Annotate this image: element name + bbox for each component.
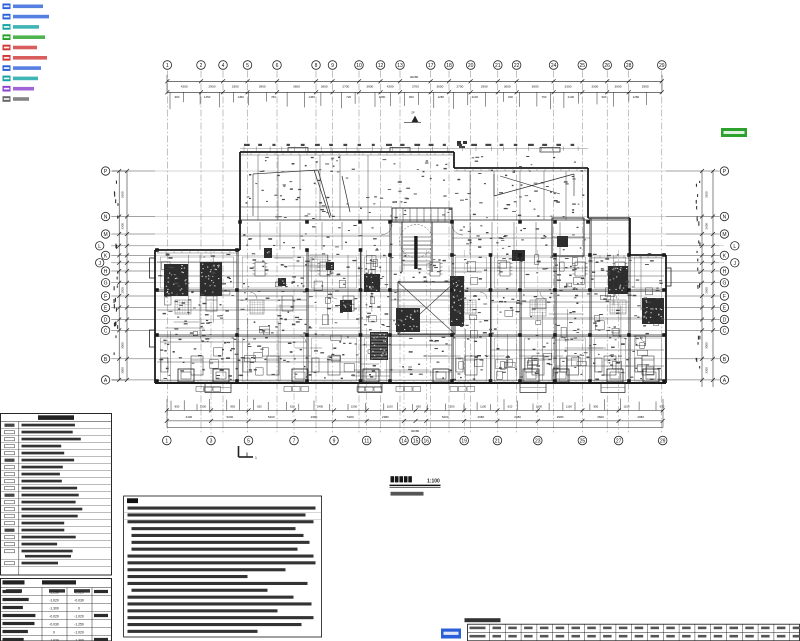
subtitle stripe	[391, 492, 424, 496]
svg-text:29: 29	[659, 63, 665, 69]
svg-text:N: N	[104, 215, 108, 221]
svg-text:1100: 1100	[623, 405, 629, 409]
svg-text:20: 20	[468, 63, 474, 69]
svg-text:2F: 2F	[411, 111, 415, 115]
svg-text:-0.020: -0.020	[49, 615, 59, 619]
svg-text:3600: 3600	[504, 84, 511, 88]
central stair core	[392, 208, 452, 222]
section mark	[238, 446, 240, 457]
svg-text:22: 22	[514, 63, 520, 69]
svg-text:850: 850	[594, 405, 599, 409]
room inset lines	[160, 257, 234, 288]
svg-text:-0.020: -0.020	[74, 591, 84, 595]
svg-text:3600: 3600	[615, 84, 622, 88]
svg-text:2980: 2980	[514, 415, 521, 419]
svg-text:3600: 3600	[597, 415, 604, 419]
svg-text:5200: 5200	[226, 415, 233, 419]
svg-text:5: 5	[247, 439, 250, 445]
svg-text:3000: 3000	[705, 342, 709, 349]
svg-text:0: 0	[53, 631, 55, 635]
horizontal grid lines (lettered axes)	[112, 170, 724, 172]
svg-text:1280: 1280	[438, 95, 445, 99]
interior horizontal walls	[157, 289, 664, 291]
svg-text:850: 850	[416, 405, 421, 409]
svg-text:900: 900	[409, 95, 414, 99]
area statistics table	[465, 618, 501, 622]
svg-text:3600: 3600	[366, 84, 373, 88]
svg-text:10: 10	[356, 63, 362, 69]
svg-text:0: 0	[78, 607, 80, 611]
svg-text:3600: 3600	[436, 84, 443, 88]
svg-text:40280: 40280	[410, 75, 419, 79]
svg-text:C: C	[723, 328, 727, 334]
svg-text:2980: 2980	[382, 415, 389, 419]
title: floor plan name	[391, 476, 395, 482]
svg-text:2600: 2600	[121, 191, 125, 198]
svg-text:3300: 3300	[565, 84, 572, 88]
svg-text:2400: 2400	[317, 405, 324, 409]
svg-text:3600: 3600	[321, 84, 328, 88]
svg-text:9: 9	[333, 439, 336, 445]
footing boxes along bottom	[178, 369, 194, 382]
svg-text:3000: 3000	[121, 367, 125, 374]
svg-text:25: 25	[580, 63, 586, 69]
svg-text:850: 850	[175, 405, 180, 409]
svg-text:1500: 1500	[351, 405, 358, 409]
small dim clusters near footings	[196, 387, 204, 392]
LT label cluster	[457, 141, 461, 144]
window ticks on bottom wall	[161, 381, 163, 383]
svg-text:21: 21	[495, 63, 501, 69]
svg-text:-1.020: -1.020	[74, 631, 84, 635]
dining tables	[255, 262, 265, 276]
upper wing interior	[240, 219, 630, 221]
notes box	[124, 496, 322, 637]
right green badge	[721, 128, 747, 137]
svg-text:M: M	[722, 232, 726, 238]
svg-text:11: 11	[364, 439, 369, 445]
svg-text:8: 8	[315, 63, 318, 69]
svg-text:2700: 2700	[342, 84, 349, 88]
svg-text:720: 720	[346, 95, 351, 99]
svg-text:2980: 2980	[477, 415, 484, 419]
svg-text:2100: 2100	[472, 95, 479, 99]
notes inner rules	[124, 512, 322, 514]
svg-text:900: 900	[602, 95, 607, 99]
svg-text:1100: 1100	[566, 405, 572, 409]
svg-text:1450: 1450	[308, 95, 315, 99]
furniture and fixtures	[164, 296, 171, 305]
svg-text:18: 18	[446, 63, 452, 69]
svg-text:7: 7	[293, 439, 296, 445]
svg-text:27: 27	[616, 439, 622, 445]
building outer walls	[240, 151, 454, 153]
right dimension lines	[701, 170, 703, 387]
tiny text dashes scattered in plan	[636, 280, 639, 281]
svg-text:2600: 2600	[705, 287, 709, 294]
svg-text:3000: 3000	[121, 342, 125, 349]
svg-text:-1.020: -1.020	[74, 615, 84, 619]
svg-text:1280: 1280	[633, 95, 640, 99]
svg-text:24: 24	[551, 63, 557, 69]
svg-text:12: 12	[378, 63, 384, 69]
tile hatch patches	[310, 255, 328, 271]
svg-text:620: 620	[660, 405, 665, 409]
blue badge near table	[441, 629, 461, 639]
svg-text:19: 19	[461, 439, 467, 445]
svg-text:1100: 1100	[480, 405, 486, 409]
svg-text:2900: 2900	[642, 84, 649, 88]
svg-text:M: M	[104, 232, 108, 238]
svg-text:29: 29	[660, 439, 666, 445]
floor levels table	[1, 579, 112, 641]
svg-text:28: 28	[626, 63, 632, 69]
column squares	[155, 248, 159, 252]
svg-text:3600: 3600	[532, 84, 539, 88]
vertical grid lines (numbered axes)	[166, 71, 168, 435]
svg-text:1450: 1450	[204, 95, 211, 99]
svg-text:4200: 4200	[181, 84, 188, 88]
svg-text:1500: 1500	[536, 405, 543, 409]
svg-text:9: 9	[331, 63, 334, 69]
svg-text:F: F	[723, 294, 726, 300]
svg-text:-0.030: -0.030	[49, 623, 59, 627]
svg-text:2600: 2600	[704, 223, 708, 230]
svg-text:L: L	[733, 244, 736, 250]
svg-text:23: 23	[535, 439, 541, 445]
svg-text:H: H	[723, 269, 727, 275]
svg-text:1280: 1280	[379, 95, 386, 99]
svg-text:1:100: 1:100	[427, 478, 440, 484]
svg-text:15: 15	[413, 439, 419, 445]
svg-text:760: 760	[271, 95, 276, 99]
svg-text:2: 2	[200, 63, 203, 69]
bottom dimension lines	[167, 409, 663, 411]
window ticks upper edges	[242, 152, 244, 155]
svg-text:1500: 1500	[200, 405, 207, 409]
svg-text:17: 17	[428, 63, 434, 69]
left band tiny dims	[115, 335, 116, 338]
svg-text:4: 4	[222, 63, 225, 69]
svg-text:760: 760	[541, 95, 546, 99]
svg-text:2900: 2900	[481, 84, 488, 88]
stair2 treads white over dark	[371, 333, 387, 335]
svg-text:-1.300: -1.300	[49, 607, 59, 611]
svg-text:4200: 4200	[387, 84, 394, 88]
mid band rooms y222-250	[259, 222, 261, 250]
svg-text:2980: 2980	[557, 415, 564, 419]
svg-text:620: 620	[508, 405, 513, 409]
beds and wardrobes bottom rooms	[191, 356, 203, 375]
svg-text:N: N	[723, 215, 727, 221]
svg-text:1: 1	[165, 439, 168, 445]
svg-text:-1.250: -1.250	[74, 623, 84, 627]
extra interior partitions	[169, 331, 171, 381]
svg-text:-1.250: -1.250	[49, 591, 59, 595]
left dimension lines	[118, 171, 120, 380]
right elevator block	[552, 218, 584, 256]
top-left colored badges	[3, 4, 11, 10]
svg-text:900: 900	[508, 95, 513, 99]
svg-text:3300: 3300	[232, 84, 239, 88]
svg-text:13: 13	[397, 63, 403, 69]
svg-text:3300: 3300	[705, 191, 709, 198]
bottom axis circles	[163, 436, 172, 445]
svg-text:3300: 3300	[120, 223, 124, 230]
svg-text:1: 1	[255, 456, 257, 460]
svg-text:C: C	[104, 328, 108, 334]
svg-text:2700: 2700	[412, 84, 419, 88]
material legend table	[1, 414, 112, 576]
svg-text:3300: 3300	[591, 84, 598, 88]
balcony slants	[253, 170, 318, 174]
svg-text:3900: 3900	[259, 84, 266, 88]
svg-text:1450: 1450	[237, 95, 244, 99]
svg-text:21: 21	[495, 439, 501, 445]
svg-text:2980: 2980	[637, 415, 644, 419]
svg-text:6: 6	[276, 63, 279, 69]
x-void room	[398, 282, 455, 334]
wing top mini dim row	[240, 148, 588, 150]
svg-text:3300: 3300	[705, 367, 709, 374]
svg-text:-1.020: -1.020	[49, 599, 59, 603]
svg-text:4400: 4400	[186, 415, 193, 419]
svg-text:25: 25	[580, 439, 586, 445]
stoops below bottom edge	[205, 383, 231, 393]
svg-text:26: 26	[604, 63, 610, 69]
svg-text:3: 3	[210, 439, 213, 445]
svg-text:1100: 1100	[387, 405, 393, 409]
svg-text:850: 850	[230, 405, 235, 409]
svg-text:5200: 5200	[268, 415, 275, 419]
svg-text:3600: 3600	[293, 84, 300, 88]
svg-text:2900: 2900	[209, 84, 216, 88]
svg-text:-0.030: -0.030	[74, 599, 84, 603]
svg-text:620: 620	[257, 405, 262, 409]
right band tiny dims	[698, 336, 699, 340]
svg-text:G: G	[722, 281, 726, 287]
dark hatched patches	[164, 264, 188, 296]
svg-text:1500: 1500	[121, 287, 125, 294]
svg-text:D: D	[723, 318, 727, 324]
svg-text:5200: 5200	[347, 415, 354, 419]
svg-text:1: 1	[166, 63, 169, 69]
svg-text:5: 5	[246, 63, 249, 69]
svg-text:H: H	[104, 269, 108, 275]
svg-text:900: 900	[175, 95, 180, 99]
svg-text:620: 620	[290, 405, 295, 409]
svg-text:5200: 5200	[442, 415, 449, 419]
svg-text:1500: 1500	[448, 405, 455, 409]
unit dividing walls	[236, 250, 238, 383]
svg-text:2100: 2100	[568, 95, 575, 99]
svg-text:16: 16	[424, 439, 430, 445]
svg-text:2700: 2700	[456, 84, 463, 88]
svg-text:D: D	[104, 318, 108, 324]
top axis circles	[163, 61, 172, 70]
svg-text:L: L	[98, 244, 101, 250]
top dimension lines	[167, 80, 662, 82]
level mark symbol	[404, 121, 421, 123]
svg-text:F: F	[104, 294, 107, 300]
svg-text:40280: 40280	[411, 429, 420, 433]
svg-text:2980: 2980	[311, 415, 318, 419]
svg-text:14: 14	[401, 439, 407, 445]
svg-text:G: G	[104, 281, 108, 287]
